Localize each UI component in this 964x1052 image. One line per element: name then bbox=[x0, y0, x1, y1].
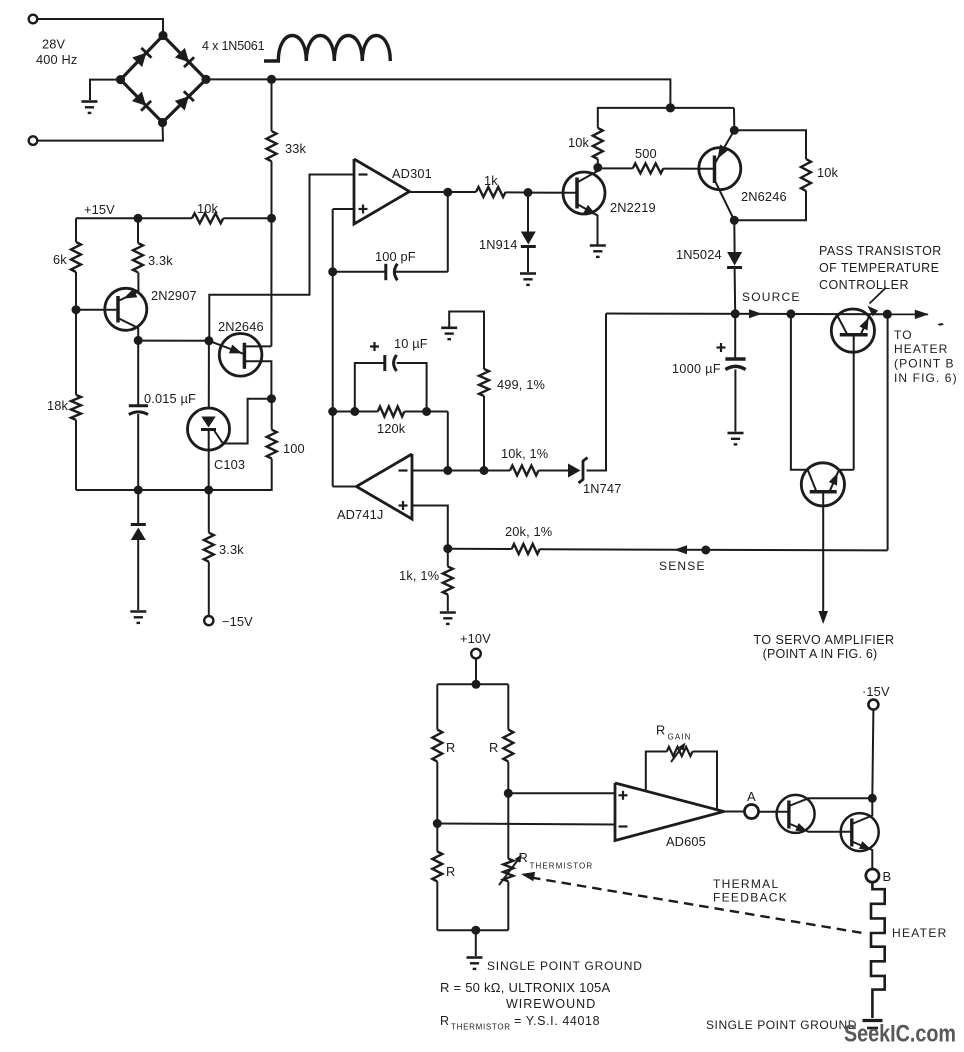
svg-text:THERMISTOR: THERMISTOR bbox=[451, 1023, 511, 1032]
svg-text:C103: C103 bbox=[214, 457, 245, 472]
wire SOURCE junction down to Q6 collector bbox=[791, 314, 808, 470]
svg-text:R: R bbox=[446, 864, 455, 879]
wire main rail from bridge to x=670 bbox=[211, 79, 671, 108]
svg-text:SOURCE: SOURCE bbox=[742, 290, 801, 304]
single point ground bar (heater) bbox=[863, 1019, 883, 1022]
wire T1 to bridge top bbox=[37, 19, 163, 32]
Q7 emitter arrow bbox=[795, 823, 807, 831]
SENSE arrow (points left) bbox=[674, 545, 687, 554]
op-amp U1 AD301 triangle bbox=[354, 159, 410, 224]
Q6 collector lead bbox=[808, 470, 817, 492]
svg-text:= Y.S.I. 44018: = Y.S.I. 44018 bbox=[514, 1014, 600, 1028]
svg-text:3.3k: 3.3k bbox=[148, 253, 173, 268]
capacitor 1000uF bottom plate (curved) bbox=[725, 366, 745, 369]
junction 120k-right node bbox=[422, 407, 431, 416]
ground G8 single point bbox=[467, 956, 483, 959]
terminal -15V bbox=[204, 616, 213, 625]
resistor 6k bbox=[71, 242, 81, 272]
svg-text:2N2907: 2N2907 bbox=[151, 288, 197, 303]
junction UJT emitter node bbox=[204, 336, 213, 345]
wire 1N914 to ground bbox=[527, 247, 529, 273]
2N2907 collector lead (bottom) bbox=[118, 318, 138, 340]
bridge node left bbox=[116, 75, 125, 84]
thyristor C103 circle bbox=[188, 408, 230, 450]
left rail middle bbox=[436, 762, 438, 852]
AD301 plus sign bbox=[359, 208, 368, 210]
svg-text:1N747: 1N747 bbox=[583, 481, 621, 496]
input terminal T1 (28V line) bbox=[29, 15, 38, 24]
op-amp U3 AD605 triangle bbox=[615, 783, 724, 841]
svg-text:HEATER: HEATER bbox=[892, 926, 948, 940]
terminal B bbox=[866, 869, 879, 882]
svg-text:THERMISTOR: THERMISTOR bbox=[530, 862, 594, 871]
wire zener to SOURCE corner bbox=[587, 314, 607, 471]
wire 1k to ground bbox=[447, 595, 449, 612]
wire T2 to bridge bottom bbox=[37, 126, 163, 141]
transistor Q1 2N2907 circle bbox=[105, 288, 147, 330]
terminal +15V (heater driver) bbox=[868, 700, 878, 710]
wire 100ohm top bbox=[271, 399, 273, 430]
wire junction up to 10k bbox=[597, 159, 599, 168]
svg-text:SINGLE POINT GROUND: SINGLE POINT GROUND bbox=[487, 959, 643, 973]
junction 10uF left bbox=[350, 407, 359, 416]
Q8 emitter lead bbox=[852, 842, 873, 869]
stray ink blob bbox=[938, 323, 945, 326]
wire base node to 18k bbox=[75, 310, 77, 395]
Q5 emitter arrow bbox=[859, 318, 868, 331]
wire node to 20k bbox=[448, 548, 512, 550]
wire collector node to UJT emitter node bbox=[138, 340, 209, 342]
svg-text:20k, 1%: 20k, 1% bbox=[505, 524, 552, 539]
AD741J plus sign bbox=[399, 504, 408, 506]
10uF right vertical bbox=[397, 363, 427, 412]
svg-text:R: R bbox=[519, 850, 528, 865]
ground G1 (bridge) bbox=[82, 100, 98, 103]
wire A to QA base bbox=[758, 811, 789, 813]
wire AD301 minus input path bbox=[209, 175, 354, 341]
wire 33k bottom to +15V rail junction bbox=[271, 161, 273, 218]
wire junction to 500 bbox=[598, 167, 633, 169]
2N2907 base bar bbox=[116, 296, 120, 323]
svg-text:R: R bbox=[446, 740, 455, 755]
Q6 base bar (horizontal) bbox=[810, 490, 837, 494]
wire 33k top bbox=[271, 79, 273, 131]
svg-text:10k, 1%: 10k, 1% bbox=[501, 446, 548, 461]
dashed thermal feedback line bbox=[531, 878, 866, 934]
AD741J minus sign bbox=[399, 469, 408, 471]
svg-text:CONTROLLER: CONTROLLER bbox=[819, 278, 909, 292]
svg-text:+10V: +10V bbox=[460, 631, 491, 646]
svg-text:−15V: −15V bbox=[222, 614, 253, 629]
AD741J plus input wire bbox=[412, 506, 448, 549]
svg-text:AD301: AD301 bbox=[392, 166, 432, 181]
svg-text:1N5024: 1N5024 bbox=[676, 247, 722, 262]
svg-text:0.015 µF: 0.015 µF bbox=[144, 391, 196, 406]
2N6246 emitter lead (top) bbox=[715, 130, 735, 164]
wire +15V down to 6k bbox=[75, 218, 77, 242]
annotation arrow to Q5 bbox=[870, 288, 887, 304]
wire minus tap to AD605 bbox=[437, 824, 615, 825]
AD741J output wire bbox=[333, 486, 357, 488]
Q8 collector lead bbox=[852, 798, 873, 824]
Q5 emitter lead bbox=[861, 315, 870, 335]
junction bottom rail / C103 bbox=[204, 486, 213, 495]
2N2646 B2 lead bbox=[244, 345, 271, 347]
wire 1N914 top bbox=[527, 193, 529, 232]
svg-text:400 Hz: 400 Hz bbox=[36, 52, 77, 67]
wire 500 to 2N6246 base bbox=[663, 168, 714, 170]
wire emitter junction to 10k right bbox=[734, 130, 806, 159]
C103 anode triangle bbox=[201, 417, 215, 428]
bridge bottom rail bbox=[437, 929, 508, 931]
wire 3.3k top bbox=[137, 218, 139, 243]
ground G7 (1k 1%) bbox=[440, 611, 456, 614]
svg-text:(POINT B: (POINT B bbox=[894, 357, 955, 371]
junction +15V/3.3k bbox=[134, 214, 143, 223]
wire ground to 499 (inverted U) bbox=[449, 312, 484, 370]
Q6 base wire down to servo arrow bbox=[822, 492, 824, 611]
bridge diode D3 (left-bottom, pointing SE) bbox=[132, 92, 146, 106]
junction right rail plus tap bbox=[504, 789, 513, 798]
Q5 base wire down bbox=[853, 335, 855, 470]
resistor 10k 1% bbox=[510, 466, 539, 476]
svg-text:1000 µF: 1000 µF bbox=[672, 362, 721, 376]
svg-text:18k: 18k bbox=[47, 398, 69, 413]
wire 499 to minus line bbox=[483, 396, 485, 471]
wire 0.015uF to bottom rail bbox=[137, 414, 139, 490]
svg-text:PASS TRANSISTOR: PASS TRANSISTOR bbox=[819, 244, 942, 258]
svg-text:WIREWOUND: WIREWOUND bbox=[506, 997, 596, 1011]
bridge node right bbox=[201, 75, 210, 84]
svg-text:A: A bbox=[747, 789, 756, 804]
Q7 emitter lead bbox=[789, 824, 852, 832]
long node wire (AD301 + / 100pF / 120k-left / AD741J out) bbox=[332, 209, 334, 487]
2N2219 emitter lead bbox=[577, 204, 598, 245]
junction B1/gate/100ohm node bbox=[267, 394, 276, 403]
wire 1k to 1N914 node bbox=[506, 191, 528, 193]
junction SOURCE/1000uF bbox=[731, 309, 740, 318]
SOURCE rail wire bbox=[606, 313, 928, 316]
bridge diode D1 (left-top, pointing NE) bbox=[132, 53, 146, 67]
svg-text:TO SERVO AMPLIFIER: TO SERVO AMPLIFIER bbox=[753, 633, 894, 647]
wire +15V to collector junction bbox=[872, 710, 873, 799]
svg-text:B: B bbox=[883, 869, 892, 884]
wire rail to diode D5 bbox=[137, 490, 139, 524]
svg-text:HEATER: HEATER bbox=[894, 342, 948, 356]
resistor 3.3k (lower) bbox=[204, 533, 214, 562]
wire 10k to junction bbox=[223, 217, 271, 219]
transistor Q4 2N6246 circle bbox=[699, 148, 741, 190]
wire 100ohm to bottom rail corner bbox=[209, 459, 272, 490]
pass transistor Q6 circle bbox=[801, 463, 844, 506]
junction minus/499 bbox=[480, 466, 489, 475]
svg-text:AD605: AD605 bbox=[666, 834, 706, 849]
bridge node top bbox=[158, 31, 167, 40]
svg-text:+15V: +15V bbox=[84, 202, 115, 217]
resistor 10k (right) bbox=[801, 159, 811, 191]
right rail upper bbox=[507, 684, 509, 729]
AD605 minus sign bbox=[619, 825, 628, 827]
wire 1N5024 to SOURCE rail bbox=[734, 268, 737, 314]
input terminal T2 (28V return) bbox=[29, 136, 38, 145]
svg-text:3.3k: 3.3k bbox=[219, 542, 244, 557]
op-amp U2 AD741J triangle bbox=[356, 454, 412, 519]
Q5 collector lead bbox=[837, 314, 848, 335]
Rgain arrow bbox=[671, 745, 684, 763]
wire +10V to bridge top bbox=[475, 658, 477, 684]
svg-text:R: R bbox=[656, 723, 665, 738]
svg-text:1k, 1%: 1k, 1% bbox=[399, 568, 439, 583]
svg-text:TO: TO bbox=[894, 328, 913, 342]
Q8 base bar bbox=[850, 819, 853, 847]
svg-text:IN FIG. 6): IN FIG. 6) bbox=[894, 371, 958, 385]
svg-text:10k: 10k bbox=[568, 135, 590, 150]
svg-text:28V: 28V bbox=[42, 37, 66, 52]
svg-text:2N6246: 2N6246 bbox=[741, 189, 787, 204]
capacitor 0.015uF top plate bbox=[129, 404, 148, 407]
transistor Q2 2N2646 (UJT) circle bbox=[219, 334, 262, 377]
junction +10V bbox=[472, 680, 481, 689]
pass transistor Q5 circle bbox=[831, 309, 874, 352]
resistor 1k bbox=[476, 187, 506, 197]
junction 120k-left node bbox=[328, 407, 337, 416]
resistor R (left lower) bbox=[432, 852, 442, 882]
AD605 plus sign bbox=[619, 794, 628, 796]
junction rail/33k bbox=[267, 75, 276, 84]
transistor Q3 2N2219 circle bbox=[563, 172, 605, 214]
wire 3.3k lower to -15V terminal bbox=[208, 562, 210, 616]
svg-text:100: 100 bbox=[283, 441, 305, 456]
2N2646 emitter lead bbox=[209, 341, 244, 354]
C103 gate lead bbox=[215, 399, 272, 444]
resistor 33k bbox=[267, 131, 277, 161]
svg-text:SENSE: SENSE bbox=[659, 559, 706, 573]
output arrow to heater bbox=[915, 310, 929, 320]
Q5 base bar (horizontal) bbox=[840, 333, 868, 337]
resistor 120k bbox=[378, 407, 405, 417]
bridge diode D2 (top-right, pointing SE) bbox=[175, 48, 189, 62]
1000uF plus sign bbox=[717, 346, 726, 348]
svg-text:10k: 10k bbox=[817, 165, 839, 180]
svg-text:1N914: 1N914 bbox=[479, 237, 517, 252]
ground G2 (below D5) bbox=[130, 610, 146, 613]
svg-text:THERMAL: THERMAL bbox=[713, 877, 779, 891]
resistor 10k (2N2219 collector load) bbox=[593, 128, 603, 159]
svg-text:GAIN: GAIN bbox=[668, 733, 692, 742]
wire plus tap to AD605 bbox=[508, 792, 615, 794]
wire collector junction to 1N5024 bbox=[733, 220, 735, 252]
svg-text:4 x 1N5061: 4 x 1N5061 bbox=[202, 39, 265, 53]
junction AD301 output bbox=[443, 188, 452, 197]
junction SOURCE/pass lower bbox=[786, 309, 795, 318]
2N6246 collector lead (bottom) bbox=[715, 180, 735, 220]
Q7 collector lead bbox=[789, 798, 872, 806]
svg-text:2N2219: 2N2219 bbox=[610, 200, 656, 215]
resistor R (left upper) bbox=[432, 730, 442, 762]
junction 20k/1k node bbox=[443, 544, 452, 553]
wire 1000uF to ground bbox=[734, 370, 736, 432]
wire 1N914 node to 2N2219 base bbox=[528, 192, 577, 194]
bottom rail wire bbox=[76, 489, 209, 491]
diode 1N914 (cathode down) bbox=[521, 232, 536, 245]
AD741J minus input wire bbox=[412, 470, 510, 472]
AD301 output wire bbox=[410, 191, 477, 193]
junction bottom rail / cap bbox=[134, 486, 143, 495]
svg-text:10k: 10k bbox=[197, 201, 219, 216]
svg-text:1k: 1k bbox=[484, 173, 498, 188]
junction 100pF left bbox=[328, 267, 337, 276]
resistor 10k (+15V to UJT node) bbox=[192, 213, 223, 223]
right rail bottom bbox=[507, 881, 509, 930]
Q6 emitter arrow bbox=[829, 473, 838, 486]
Q6 emitter lead bbox=[830, 471, 839, 492]
left rail upper bbox=[436, 684, 438, 729]
junction 10k/500/collector bbox=[593, 163, 602, 172]
2N2219 emitter arrow bbox=[584, 205, 597, 215]
wire SOURCE to 1000uF bbox=[734, 314, 736, 358]
wire 10k top corner bbox=[598, 108, 734, 128]
resistor 3.3k (upper) bbox=[133, 243, 143, 272]
capacitor 10uF plates bbox=[383, 355, 386, 371]
resistor 100 bbox=[267, 430, 277, 459]
svg-text:(POINT A IN FIG. 6): (POINT A IN FIG. 6) bbox=[763, 647, 878, 661]
arrow to servo amplifier bbox=[819, 611, 829, 624]
svg-text:2N2646: 2N2646 bbox=[218, 319, 264, 334]
AD301 plus input wire bbox=[333, 208, 354, 210]
junction base node Q1 bbox=[72, 305, 81, 314]
transistor Q7 circle bbox=[777, 795, 815, 833]
capacitor 0.015uF bottom plate (curved) bbox=[129, 412, 148, 415]
2N2646 B2 wire up to 10k/33k node bbox=[270, 218, 272, 346]
resistor 1k 1% bbox=[443, 567, 453, 595]
bridge top rail bbox=[437, 683, 508, 685]
wire rail to 3.3k lower bbox=[208, 490, 210, 533]
thermistor arrow bbox=[499, 857, 521, 886]
C103 cathode bar bbox=[201, 428, 216, 431]
10uF left vertical bbox=[355, 363, 385, 412]
2N2219 collector lead bbox=[577, 168, 598, 183]
thermal feedback arrowhead bbox=[521, 872, 535, 881]
wire 120k right bbox=[404, 411, 448, 413]
resistor 18k bbox=[71, 395, 81, 420]
junction 2N6246 emitter bbox=[730, 126, 739, 135]
junction on SENSE bbox=[701, 546, 710, 555]
junction minus/120k bbox=[443, 466, 452, 475]
wire +15V rail bbox=[76, 217, 192, 219]
wire 120k-right down to minus line bbox=[447, 412, 449, 471]
2N2646 emitter arrow bbox=[229, 345, 242, 354]
bridge rectifier frame (4 x 1N5061) bbox=[121, 36, 207, 123]
junction 2N6246 collector bbox=[730, 216, 739, 225]
junction left rail minus tap bbox=[433, 819, 442, 828]
SOURCE flow arrow bbox=[749, 309, 762, 318]
svg-text:OF TEMPERATURE: OF TEMPERATURE bbox=[819, 261, 939, 275]
svg-text:10 µF: 10 µF bbox=[394, 336, 428, 351]
wire UJT emitter node down to C103 anode bbox=[208, 341, 210, 408]
resistor 20k 1% bbox=[512, 544, 540, 554]
svg-text:R = 50 kΩ, ULTRONIX 105A: R = 50 kΩ, ULTRONIX 105A bbox=[440, 980, 611, 995]
diode 1N5024 (cathode down) bbox=[727, 252, 742, 266]
C103 cathode lead to bottom rail bbox=[208, 430, 210, 491]
zener diode 1N747 bbox=[568, 464, 581, 478]
left rail bottom bbox=[436, 881, 438, 930]
2N2907 emitter lead (top, PNP) bbox=[118, 292, 138, 302]
wire 18k to bottom rail bbox=[75, 420, 77, 490]
wire 6k to base node bbox=[75, 272, 77, 310]
wire Q5 base to Q6 emitter bbox=[839, 469, 854, 471]
resistor R thermistor bbox=[503, 859, 513, 882]
bridge node bottom bbox=[158, 118, 167, 127]
capacitor 100pF plates bbox=[384, 264, 387, 280]
svg-text:AD741J: AD741J bbox=[337, 507, 383, 522]
bridge diode D4 (bottom-right, pointing NE) bbox=[175, 96, 189, 110]
100pF left wire bbox=[333, 271, 386, 273]
10uF plus sign bbox=[370, 345, 379, 347]
svg-text:·15V: ·15V bbox=[862, 684, 890, 699]
junction 33k/10k/B2 node bbox=[267, 214, 276, 223]
diode D5 (cathode up) bbox=[131, 528, 146, 541]
svg-text:500: 500 bbox=[635, 146, 657, 161]
svg-text:100 pF: 100 pF bbox=[375, 249, 416, 264]
junction bottom rail bbox=[471, 926, 480, 935]
svg-text:SeekIC.com: SeekIC.com bbox=[844, 1021, 956, 1048]
2N2646 base bar bbox=[243, 343, 247, 369]
ground G6 (499 top) bbox=[441, 326, 457, 329]
svg-text:120k: 120k bbox=[377, 421, 406, 436]
ground G3 (1N914) bbox=[520, 272, 536, 275]
terminal A bbox=[745, 805, 759, 819]
SENSE wire bbox=[540, 549, 888, 550]
wire to single point ground bbox=[475, 930, 477, 956]
junction SOURCE/heater out bbox=[883, 310, 892, 319]
junction +15V/collectors bbox=[868, 794, 877, 803]
resistor 499 1% bbox=[479, 369, 489, 396]
2N6246 emitter arrow (points to bar) bbox=[718, 145, 729, 159]
wire 10k1% to zener bbox=[539, 470, 569, 472]
wire D5 to ground bbox=[137, 540, 139, 610]
wire corner into emitter junction bbox=[733, 108, 735, 130]
2N2219 base bar bbox=[575, 178, 579, 209]
junction 2N2907 collector node bbox=[134, 336, 143, 345]
2N6246 base bar bbox=[713, 156, 717, 184]
svg-text:SINGLE POINT GROUND: SINGLE POINT GROUND bbox=[706, 1018, 857, 1032]
Q8 emitter arrow bbox=[859, 841, 871, 849]
svg-text:33k: 33k bbox=[285, 141, 307, 156]
Q7 base bar bbox=[787, 801, 790, 829]
transistor Q8 circle bbox=[841, 813, 879, 851]
capacitor 1000uF top plate bbox=[725, 357, 745, 360]
AD605 output wire bbox=[724, 811, 745, 813]
svg-text:R: R bbox=[489, 740, 498, 755]
wire 3.3k to 2N2907 emitter bbox=[137, 272, 139, 292]
ground G5 (1000uF) bbox=[728, 432, 744, 435]
Rgain loop bbox=[646, 752, 667, 791]
svg-text:R: R bbox=[440, 1014, 450, 1028]
junction rail drop bbox=[666, 103, 675, 112]
heater element (meander) bbox=[871, 882, 885, 1018]
wire 120k left bbox=[333, 411, 378, 413]
wire node to 1k bbox=[447, 549, 449, 567]
wire bridge left node to ground bbox=[90, 80, 116, 100]
svg-text:6k: 6k bbox=[53, 252, 67, 267]
wire output junction down to 100pF bbox=[447, 192, 449, 272]
resistor R (right upper) bbox=[503, 730, 513, 762]
resistor Rgain bbox=[667, 747, 693, 756]
wire to 0.015uF bbox=[137, 340, 139, 405]
AD301 minus sign bbox=[359, 173, 368, 175]
right rail middle bbox=[507, 762, 509, 859]
svg-text:FEEDBACK: FEEDBACK bbox=[713, 891, 788, 905]
